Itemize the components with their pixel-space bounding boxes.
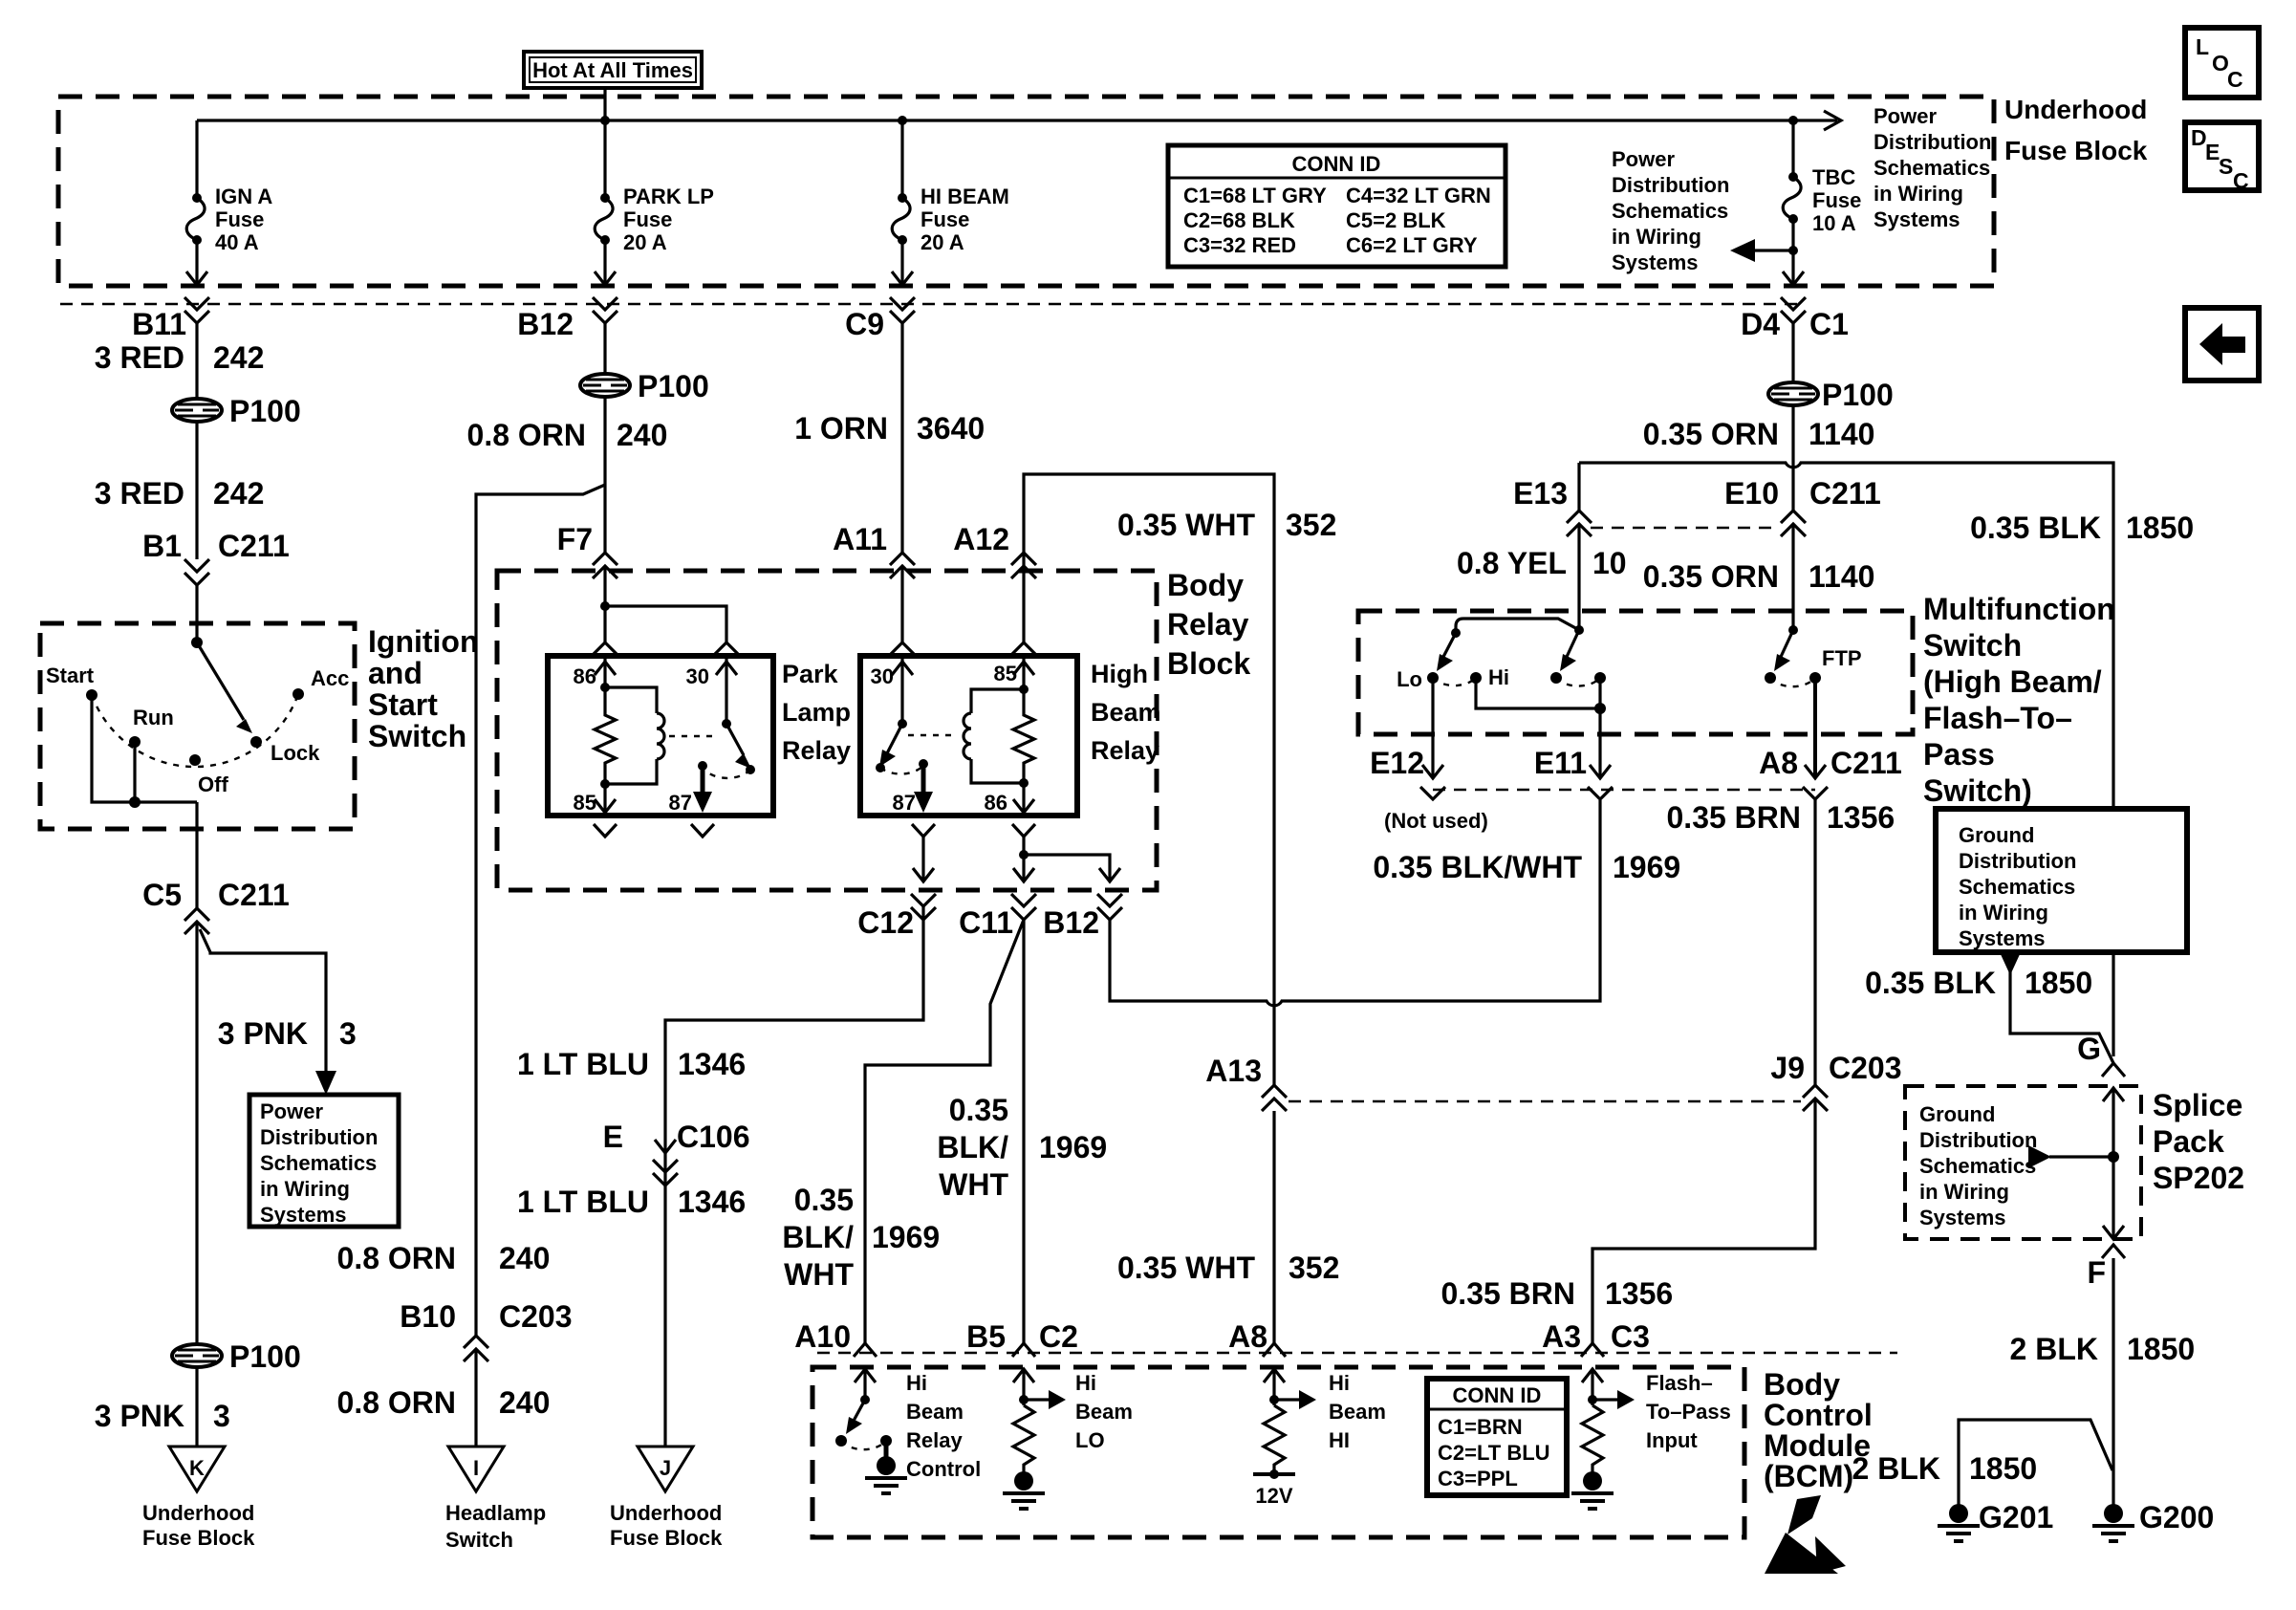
svg-text:A8: A8 [1759,746,1798,780]
svg-text:P100: P100 [229,1339,301,1374]
svg-text:1850: 1850 [1969,1451,2037,1486]
svg-text:SP202: SP202 [2153,1161,2244,1195]
node: Hi contact [1470,672,1482,684]
svg-text:C2: C2 [1039,1319,1078,1354]
svg-text:3: 3 [339,1016,357,1051]
svg-text:Fuse Block: Fuse Block [610,1526,723,1550]
svg-text:Schematics: Schematics [1612,199,1728,223]
connector J9 / C203 [1770,1051,1901,1111]
text: Splice Pack SP202 title [2153,1088,2244,1195]
node: Start position [86,689,97,701]
text: Underhood Fuse Block (under K) [142,1501,255,1550]
wire: PARK LP fuse to connector B12 [603,240,606,285]
svg-text:C3=PPL: C3=PPL [1438,1467,1518,1490]
label: 0.35 BLK 1850 (branch) [1865,966,2092,1000]
text: Multifunction Switch title [1923,592,2115,808]
wire: Run contact down [133,742,136,802]
resistor (A3 pull) [1582,1405,1603,1472]
svg-text:0.35 BLK: 0.35 BLK [1865,966,1996,1000]
svg-text:E: E [603,1120,623,1154]
BCM input A10: hi beam relay control driver [835,1369,892,1457]
node: junction Run/Start [129,796,141,808]
connector B12 [517,297,617,341]
svg-text:in Wiring: in Wiring [1874,182,1963,206]
svg-text:0.35: 0.35 [949,1093,1008,1127]
svg-text:1 ORN: 1 ORN [794,411,888,446]
ignition switch: position arc (dashed) [92,694,298,767]
svg-text:87: 87 [669,791,692,815]
dashed arc: FTP contacts [1770,678,1815,686]
label: 0.35 WHT 352 (lower) [1117,1251,1339,1285]
fuse HI BEAM 20 A [892,185,1009,254]
connector: high beam relay pin 85 entry [1012,642,1035,654]
wire: switch output down [195,802,198,908]
wire: branch to G201 [1959,1420,2112,1506]
park lamp relay resistor [595,687,616,784]
multifunction switch: dimmer wiper arm (to Lo) [1437,633,1456,671]
svg-text:C9: C9 [845,307,884,341]
svg-text:Block: Block [1167,646,1250,681]
svg-text:Fuse Block: Fuse Block [2004,136,2148,165]
text: Ignition and Start Switch title [368,624,479,753]
connector G [2077,1032,2125,1077]
svg-text:Systems: Systems [1959,926,2046,950]
svg-text:242: 242 [213,340,264,375]
svg-text:LO: LO [1075,1428,1105,1452]
svg-text:Hi: Hi [906,1371,927,1395]
wire: bus drop to IGN A fuse [195,120,198,198]
svg-text:Relay: Relay [906,1428,963,1452]
svg-text:0.35 BRN: 0.35 BRN [1441,1276,1576,1311]
svg-text:30: 30 [686,664,709,688]
connector C12 [857,894,936,940]
label: 2 BLK 1850 [2010,1332,2196,1366]
wire: 3 RED 242 from B11 to C211 [195,323,198,400]
svg-text:3 PNK: 3 PNK [95,1399,184,1433]
svg-text:2 BLK: 2 BLK [2010,1332,2098,1366]
multifunction switch: high-beam wiper arm [1560,630,1579,671]
connector: park lamp 85 stub [594,824,617,837]
svg-text:A10: A10 [794,1319,851,1354]
Ignition and Start Switch dashed box [40,623,355,829]
svg-text:Schematics: Schematics [1919,1154,2036,1178]
svg-text:1356: 1356 [1605,1276,1673,1311]
svg-text:TBC: TBC [1812,165,1855,189]
svg-text:Body: Body [1167,568,1244,602]
svg-text:Distribution: Distribution [260,1125,378,1149]
svg-text:240: 240 [617,418,667,452]
svg-text:I: I [473,1456,479,1480]
node: bus junction at TBC [1788,116,1798,125]
svg-text:240: 240 [499,1241,550,1275]
svg-text:To–Pass: To–Pass [1646,1400,1731,1424]
svg-text:HI: HI [1329,1428,1350,1452]
svg-text:40 A: 40 A [215,230,259,254]
connector B12 (body relay block out) [1043,894,1122,940]
svg-text:P100: P100 [229,394,301,428]
wire: main 3 PNK down to P100 [195,922,198,1344]
text: Hi Beam HI [1329,1371,1386,1452]
connector row dashed line (C203 at A13/J9) [1289,1100,1801,1102]
wire: J9 jog to A3/C3 [1592,1099,1815,1343]
connector E10 / C211 [1724,476,1881,536]
svg-text:Fuse: Fuse [215,207,264,231]
LOC box [2185,28,2259,98]
svg-text:(Not used): (Not used) [1384,809,1488,833]
ground G200 [2092,1500,2214,1541]
connector A12 [953,522,1036,578]
svg-text:C211: C211 [218,529,290,563]
svg-text:86: 86 [985,791,1007,815]
label: 0.8 ORN 240 [467,418,668,452]
svg-text:Systems: Systems [1919,1206,2006,1229]
svg-text:Hi: Hi [1329,1371,1350,1395]
wire: 0.35 BRN 1356 down to J9 [1813,799,1816,1085]
wire: branch 86 to B12 pin [1024,855,1120,881]
park lamp relay pin 86 arrow [574,656,616,688]
svg-text:0.35 BLK: 0.35 BLK [1970,511,2101,545]
wire: A11 into high beam relay pin 30 [900,566,903,642]
ignition switch: feed node [191,637,203,648]
connector C9 [845,297,915,341]
park lamp relay pin 30 arrow [686,656,737,724]
high beam relay switch [876,719,933,813]
svg-text:B11: B11 [132,307,186,341]
CONN ID table (BCM) [1427,1379,1567,1495]
svg-text:C4=32 LT GRN: C4=32 LT GRN [1346,184,1491,207]
svg-text:0.35 BLK/WHT: 0.35 BLK/WHT [1373,850,1582,884]
svg-text:G: G [2077,1032,2101,1066]
label: 1 LT BLU 1346 (below C106) [517,1185,746,1219]
svg-text:1 LT BLU: 1 LT BLU [517,1185,649,1219]
svg-text:Flash–: Flash– [1646,1371,1713,1395]
high beam relay pin 86 [985,783,1034,815]
svg-text:CONN ID: CONN ID [1453,1383,1542,1407]
DESC box [2185,122,2259,193]
svg-text:Start: Start [46,664,95,687]
svg-text:Systems: Systems [260,1203,347,1227]
connector E / C106 [603,1120,750,1186]
wire: branch to power distribution ref [200,929,326,1082]
svg-text:Underhood: Underhood [142,1501,254,1525]
svg-text:242: 242 [213,476,264,511]
svg-text:B12: B12 [517,307,574,341]
connector: park lamp relay pin 86 entry [594,642,617,654]
svg-text:Pack: Pack [2153,1124,2224,1159]
wire: splice to ground ref link [2049,1151,2119,1163]
box: Power Distribution Schematics in Wiring Systems [249,1095,399,1227]
svg-text:F7: F7 [557,522,593,556]
svg-text:P100: P100 [1822,378,1894,412]
wire: A12 into high beam relay pin 85 [1022,566,1025,642]
node: Acc position [292,688,304,700]
svg-text:(BCM): (BCM) [1764,1459,1853,1493]
svg-text:B10: B10 [400,1299,456,1334]
connector A8 (BCM) [1228,1319,1286,1357]
label: 0.8 ORN 240 (lower) [337,1385,551,1420]
svg-text:CONN ID: CONN ID [1292,152,1381,176]
wire: bus drop to TBC fuse [1791,120,1794,177]
splice pack internal wire [2103,1088,2124,1239]
svg-text:S: S [2219,154,2233,179]
svg-text:L: L [2196,34,2209,59]
text: Park Lamp Relay label [782,660,851,765]
connector A8 / C211 [1759,746,1902,799]
connector B11 [132,297,209,341]
svg-text:0.35 ORN: 0.35 ORN [1643,559,1779,594]
ground G201 [1938,1500,2053,1541]
svg-text:0.8 ORN: 0.8 ORN [467,418,586,452]
text: Body Control Module (BCM) title [1764,1367,1873,1493]
connector B5 / C2 [966,1319,1078,1357]
svg-text:A13: A13 [1205,1054,1262,1088]
wire: 0.35 BLK 1850 branch from ground dist box [2010,971,2113,1063]
svg-text:Beam: Beam [906,1400,964,1424]
connector triangle J (Underhood Fuse Block) [638,1447,693,1491]
connector row dashed line (BCM pins) [817,1352,1897,1354]
svg-text:0.8 YEL: 0.8 YEL [1457,546,1567,580]
svg-text:E11: E11 [1534,746,1587,780]
wire: into ignition switch [195,585,198,642]
svg-text:10 A: 10 A [1812,211,1856,235]
svg-text:E12: E12 [1370,746,1424,780]
splice P100 (lower left) [172,1339,301,1374]
svg-text:1346: 1346 [678,1185,746,1219]
label: 3 RED 242 [95,340,265,375]
connector E12 [1370,746,1445,799]
multifunction switch: FTP wiper [1774,625,1798,671]
node: Off position [189,754,201,766]
connector E13 [1513,476,1592,536]
node: bus junction at PARK LP [600,116,610,125]
svg-text:Hi: Hi [1488,665,1509,689]
node: Lo contact [1427,672,1439,684]
node: FTP left contact [1765,672,1776,684]
resistor (B5 pull) [1013,1405,1034,1472]
ground symbol (A10 driver) [865,1456,907,1493]
svg-text:C211: C211 [1830,746,1902,780]
svg-text:P100: P100 [638,369,709,403]
svg-text:Beam: Beam [1075,1400,1133,1424]
text: High Beam Relay label [1091,660,1161,765]
connector row dashed line (C211 top) [60,303,1797,305]
svg-text:Flash–To–: Flash–To– [1923,701,2072,735]
wire: 0.35 WHT 352 staple from A12 up over to A13 column [1024,474,1274,1085]
svg-text:Fuse: Fuse [623,207,672,231]
ground symbol (B5) [1003,1471,1045,1509]
connector row dashed line (E12/E11/A8) [1433,789,1815,791]
connector E11 [1534,746,1613,799]
splice P100 (TBC) [1768,378,1894,412]
svg-text:Off: Off [198,772,228,796]
svg-text:in Wiring: in Wiring [260,1177,350,1201]
node: high-beam right contact [1594,672,1606,684]
wire: IGN A fuse to connector B11 [195,240,198,285]
park lamp relay switch [693,719,755,813]
connector C5 / C211 [142,878,290,934]
svg-text:1 LT BLU: 1 LT BLU [517,1047,649,1081]
text: Flash-To-Pass Input [1646,1371,1731,1452]
BCM input A8: hi beam HI sense [1264,1369,1316,1409]
svg-text:Ground: Ground [1919,1102,1995,1126]
connector F [2087,1245,2125,1290]
svg-text:Beam: Beam [1329,1400,1386,1424]
svg-text:1850: 1850 [2025,966,2092,1000]
svg-text:Distribution: Distribution [1919,1128,2037,1152]
connector F7 [557,522,617,578]
svg-text:Fuse: Fuse [1812,188,1861,212]
svg-text:1850: 1850 [2127,1332,2195,1366]
wire: E13 to multifunction switch feed rail [1577,463,1580,511]
high beam relay resistor [1013,689,1034,783]
back-arrow box [2185,308,2259,381]
svg-text:C6=2 LT GRY: C6=2 LT GRY [1346,233,1478,257]
wire: D4/C1 to P100 [1791,323,1794,382]
wire: 0.8 ORN to I [474,1349,477,1447]
connector C11 [959,894,1036,940]
svg-text:Distribution: Distribution [1959,849,2076,873]
svg-text:0.8 ORN: 0.8 ORN [337,1385,456,1420]
label: 3 RED 242 (second) [95,476,265,511]
svg-text:Start: Start [368,687,438,722]
svg-text:Pass: Pass [1923,737,1995,772]
node: Lock position [250,736,262,748]
text: Hi Beam Relay Control [906,1371,981,1481]
park lamp relay actuator dashed link [669,735,719,737]
svg-text:WHT: WHT [939,1167,1008,1202]
wire: C11 diagonal branch to A10 [865,920,1024,1343]
svg-text:Run: Run [133,706,174,729]
svg-text:Switch: Switch [445,1528,513,1552]
label: 1 LT BLU 1346 (above C106) [517,1047,746,1081]
svg-text:C1: C1 [1809,307,1849,341]
svg-text:Power: Power [260,1099,323,1123]
label: 0.35 ORN 1140 (lower) [1643,559,1875,594]
fuse IGN A 40 A [186,185,272,254]
svg-text:B1: B1 [142,529,182,563]
svg-text:1969: 1969 [1039,1130,1107,1164]
wire: Lo contact to E12 [1431,678,1434,776]
svg-text:Control: Control [1764,1398,1873,1432]
svg-text:0.35 WHT: 0.35 WHT [1117,1251,1255,1285]
svg-text:Distribution: Distribution [1874,130,1991,154]
connector triangle I (Headlamp Switch) [448,1447,504,1491]
High Beam Relay box [860,656,1077,816]
text: Hi Beam LO [1075,1371,1133,1452]
wire: 0.8 YEL 10 into switch [1577,524,1580,630]
multifunction switch: dimmer feed link [1451,619,1584,638]
svg-text:1140: 1140 [1809,417,1874,451]
wire: 3 PNK 3 to K [195,1367,198,1447]
svg-text:352: 352 [1286,508,1336,542]
svg-text:0.35 BRN: 0.35 BRN [1667,800,1802,835]
svg-text:Switch: Switch [368,719,466,753]
svg-text:C: C [2227,67,2243,92]
svg-text:Ground: Ground [1959,823,2034,847]
svg-text:G201: G201 [1979,1500,2053,1534]
svg-text:1356: 1356 [1827,800,1895,835]
svg-text:K: K [189,1456,205,1480]
svg-text:Power: Power [1612,147,1675,171]
svg-text:1969: 1969 [872,1220,940,1254]
svg-text:B5: B5 [966,1319,1006,1354]
connector B10 / C203 [400,1299,572,1361]
box: Ground Distribution Schematics in Wiring Systems [1936,809,2187,952]
connector A3 / C3 [1542,1319,1650,1357]
svg-text:J9: J9 [1770,1051,1805,1085]
svg-text:Schematics: Schematics [260,1151,377,1175]
label: 0.35 BLK/WHT 1969 (E11 wire) [1373,850,1680,884]
wire: power bus [197,119,1793,121]
wire: switch output down (E11) [1598,678,1601,776]
svg-text:E13: E13 [1513,476,1568,511]
svg-text:Ignition: Ignition [368,624,479,659]
wire: 0.35 ORN 1140 down through E10 [1791,405,1794,630]
svg-text:Power: Power [1874,104,1937,128]
arrowhead: ground distribution branch [2000,952,2021,975]
svg-text:Acc: Acc [311,666,349,690]
wire: TBC fuse branch arrow left [1730,219,1798,262]
svg-text:Fuse: Fuse [921,207,969,231]
svg-text:0.8 ORN: 0.8 ORN [337,1241,456,1275]
connector A11 [833,522,915,578]
arrowhead: E12 output [1422,765,1443,778]
CONN ID table (underhood fuse block) [1168,145,1505,267]
svg-text:C211: C211 [1809,476,1881,511]
arrowhead: A8 output [1805,765,1826,778]
wire: bus arrow to Power Distribution [1793,119,1837,121]
label: 0.35 BLK/WHT 1969 (B5 wire) [937,1093,1107,1202]
label: 0.35 BLK 1850 (top right) [1970,511,2194,545]
svg-text:A3: A3 [1542,1319,1581,1354]
fuse PARK LP 20 A [595,185,714,254]
ESD sensitive device symbol [1765,1495,1846,1574]
label box: Hot At All Times [524,52,702,88]
arrowhead: link to ground distribution ref [2028,1145,2051,1168]
wire: Hi contact to output junction [1476,678,1606,714]
svg-text:J: J [660,1456,671,1480]
node: Run position [129,736,141,748]
splice P100 (park lamp) [580,369,709,403]
wire: 1 LT BLU from C12 to J [665,906,923,1447]
svg-text:C: C [2233,168,2249,193]
svg-text:Fuse Block: Fuse Block [142,1526,255,1550]
wire: PARK LP 0.8 ORN 240 down to F7 [603,323,606,399]
svg-text:1346: 1346 [678,1047,746,1081]
svg-text:Distribution: Distribution [1612,173,1729,197]
svg-text:Beam: Beam [1091,698,1161,727]
wire: 2 BLK 1850 from F to G200 [2112,1258,2114,1506]
text: Underhood Fuse Block (under J) [610,1501,723,1550]
svg-text:0.35 WHT: 0.35 WHT [1117,508,1255,542]
node: bus junction at HI BEAM [898,116,907,125]
svg-text:240: 240 [499,1385,550,1420]
svg-text:Body: Body [1764,1367,1840,1402]
svg-text:G200: G200 [2139,1500,2214,1534]
svg-text:86: 86 [574,664,596,688]
svg-text:IGN A: IGN A [215,185,272,208]
wire: F7 into relay block with junction [600,566,726,642]
svg-text:D4: D4 [1741,307,1780,341]
connector: park lamp relay pin 30 entry [715,642,738,654]
svg-text:Lock: Lock [271,741,320,765]
svg-text:Schematics: Schematics [1959,875,2075,899]
svg-text:Module: Module [1764,1428,1871,1463]
label: 0.35 BRN 1356 [1667,800,1895,835]
svg-text:BLK/: BLK/ [782,1220,854,1254]
svg-text:C2=68 BLK: C2=68 BLK [1183,208,1295,232]
label: 0.8 YEL 10 [1457,546,1627,580]
